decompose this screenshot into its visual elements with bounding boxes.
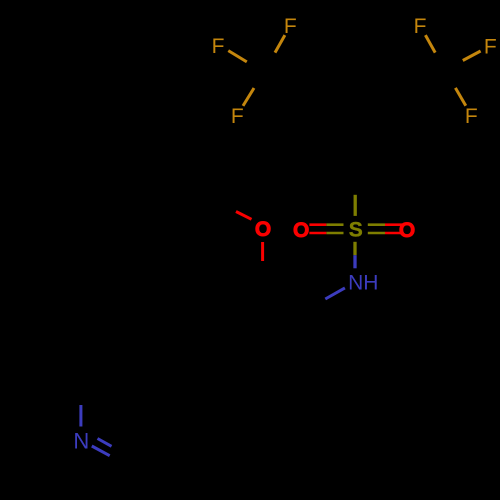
pyridine N-C6 bond: blue half <box>79 405 82 427</box>
left CF3: bond C8-F1 (gold half) <box>275 35 285 53</box>
S=O left double bond: red halves <box>309 223 326 226</box>
right CF3: bond C7-F5 (gold half) <box>463 51 481 61</box>
N(H)-C(ring B) bond: blue half <box>325 288 345 299</box>
right CF3: bond C7-F6 (gold half) <box>455 88 465 106</box>
S=O right double bond: olive halves <box>368 223 385 226</box>
svg-text:S: S <box>349 219 363 242</box>
S-N bond: blue half <box>353 255 356 268</box>
svg-text:F: F <box>484 36 497 59</box>
svg-text:NH: NH <box>348 272 378 295</box>
svg-text:N: N <box>73 428 89 453</box>
svg-text:F: F <box>414 15 427 38</box>
svg-text:O: O <box>399 219 415 242</box>
svg-text:F: F <box>465 105 478 128</box>
right CF3: bond C7-F4 (gold half) <box>425 35 435 53</box>
svg-text:O: O <box>293 219 309 242</box>
methoxy O-ringB bond: red half <box>261 242 264 261</box>
methoxy O-CH3 bond: red half <box>236 212 252 220</box>
svg-text:O: O <box>255 218 271 241</box>
svg-text:F: F <box>231 105 244 128</box>
pyridine N=C2 main line: blue half <box>92 446 110 456</box>
svg-text:F: F <box>284 15 297 38</box>
left CF3: bond C8-F3 (gold half) <box>243 88 254 106</box>
pyridine N=C2 inner double line: blue half <box>98 439 112 447</box>
S=O right double bond: red halves <box>385 223 402 226</box>
svg-text:F: F <box>212 35 225 58</box>
S=O left double bond: olive halves <box>326 223 343 226</box>
bond ringA C1 - S (olive half) <box>354 195 357 216</box>
left CF3: bond C8-F2 (gold half) <box>228 51 247 62</box>
S-N bond: olive half <box>353 242 356 255</box>
